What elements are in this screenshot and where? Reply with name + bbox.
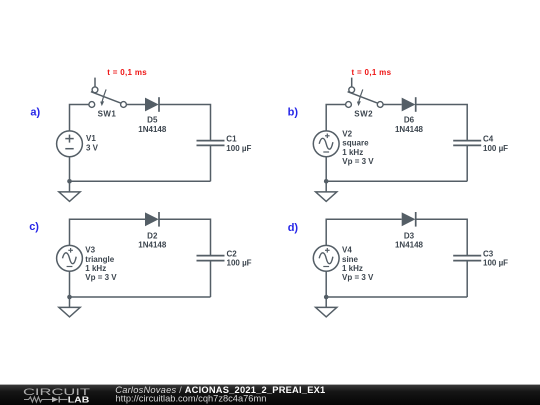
voltage source V3 [57, 245, 83, 271]
junction node (bottom wire / ground) [324, 179, 329, 184]
voltage source V2 [313, 131, 339, 157]
svg-text:1N4148: 1N4148 [138, 125, 167, 134]
wire: bottom return wire [326, 180, 467, 182]
svg-text:100 µF: 100 µF [483, 259, 508, 268]
wire: bottom return wire [70, 180, 211, 182]
logo diode [52, 397, 58, 403]
junction node (bottom wire / ground) [67, 179, 72, 184]
svg-text:D5: D5 [147, 115, 158, 124]
svg-text:C1: C1 [226, 135, 237, 144]
svg-text:a): a) [30, 106, 40, 118]
wire: diode cathode to top-right corner, down to capacitor top plate [159, 105, 211, 141]
wire: source bottom to bottom wire [69, 271, 71, 297]
junction node (bottom wire / ground) [324, 295, 329, 300]
svg-text:SW2: SW2 [354, 110, 373, 119]
svg-text:100 µF: 100 µF [226, 144, 251, 153]
wire: left rail top (source top to top wire) [326, 105, 345, 131]
wire: diode cathode to top-right corner, down to capacitor top plate [416, 219, 468, 255]
svg-text:t = 0,1 ms: t = 0,1 ms [107, 68, 147, 77]
capacitor C2 [197, 256, 225, 261]
svg-text:t = 0,1 ms: t = 0,1 ms [352, 68, 392, 77]
svg-text:100 µF: 100 µF [227, 259, 252, 268]
wire: diode cathode to top-right corner, down to capacitor top plate [416, 105, 468, 141]
svg-text:1N4148: 1N4148 [395, 125, 424, 134]
diode D3 [402, 212, 416, 227]
svg-text:SW1: SW1 [98, 110, 117, 119]
diode D2 [145, 212, 159, 227]
capacitor C4 [453, 141, 481, 146]
wire: source bottom to bottom wire [325, 271, 327, 297]
svg-text:C4: C4 [483, 135, 494, 144]
svg-text:V1 3 V: V1 3 V [86, 134, 99, 153]
svg-text:D3: D3 [404, 231, 415, 240]
footer bar [0, 385, 540, 405]
svg-text:http://circuitlab.com/cqh7z8c4: http://circuitlab.com/cqh7z8c4a76mn [116, 394, 267, 404]
wire: switch right terminal to diode anode [126, 104, 145, 106]
wire: capacitor bottom plate down to bottom wire [466, 145, 468, 181]
wire: top wire from source top to diode anode [326, 219, 402, 245]
wire: capacitor bottom plate down to bottom wire [466, 261, 468, 297]
switch SW2 [346, 78, 384, 108]
voltage source V4 [313, 245, 339, 271]
wire: top wire from source top to diode anode [70, 219, 146, 245]
svg-text:LAB: LAB [68, 394, 90, 404]
ground [59, 297, 80, 317]
svg-text:C3: C3 [483, 249, 494, 258]
wire: switch right terminal to diode anode [383, 104, 402, 106]
wire: source bottom to bottom wire [69, 157, 71, 182]
switch SW1 [89, 78, 127, 108]
wire: bottom return wire [70, 296, 211, 298]
ground [316, 181, 337, 201]
svg-text:b): b) [288, 107, 299, 119]
svg-text:d): d) [288, 222, 299, 234]
capacitor C3 [453, 256, 481, 261]
svg-text:C2: C2 [227, 249, 238, 258]
diode D5 [145, 97, 159, 112]
voltage source V1 [57, 131, 83, 157]
wire: capacitor bottom plate down to bottom wire [210, 145, 212, 181]
capacitor C1 [197, 141, 225, 146]
svg-text:D2: D2 [147, 231, 158, 240]
wire: bottom return wire [326, 296, 467, 298]
ground [59, 181, 80, 201]
junction node (bottom wire / ground) [67, 295, 72, 300]
wire: source bottom to bottom wire [325, 157, 327, 182]
svg-text:D6: D6 [404, 115, 415, 124]
svg-text:100 µF: 100 µF [483, 144, 508, 153]
ground [316, 297, 337, 317]
svg-text:1N4148: 1N4148 [138, 241, 167, 250]
wire: capacitor bottom plate down to bottom wire [210, 261, 212, 297]
svg-text:1N4148: 1N4148 [395, 241, 424, 250]
logo schematic line with resistor [24, 397, 52, 402]
diode D6 [402, 97, 416, 112]
wire: diode cathode to top-right corner, down to capacitor top plate [159, 219, 211, 255]
wire: left rail top (source top to top wire) [70, 105, 89, 131]
svg-text:c): c) [29, 221, 39, 233]
